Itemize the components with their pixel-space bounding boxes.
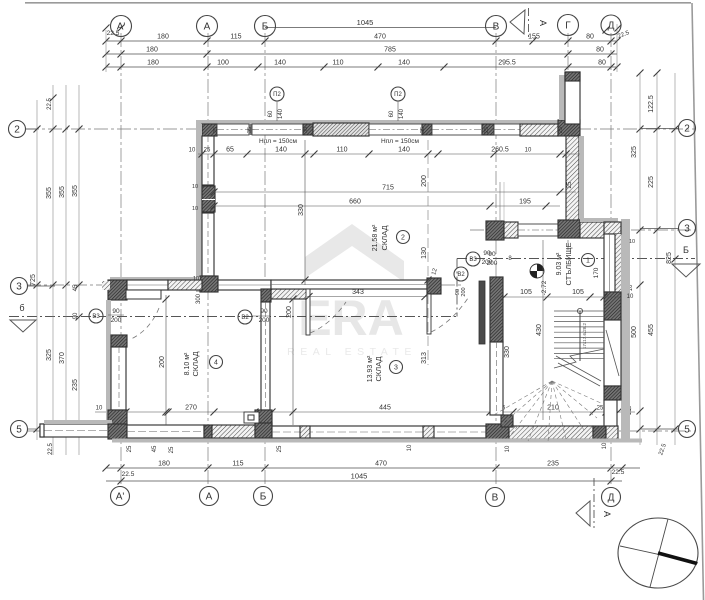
svg-text:А: А bbox=[204, 22, 211, 33]
bottom wall A junction bbox=[204, 425, 212, 438]
left wall A bottom block bbox=[200, 276, 218, 292]
top wall masonry infill segment bbox=[313, 123, 369, 136]
svg-text:110: 110 bbox=[332, 60, 343, 67]
svg-text:-2.72: -2.72 bbox=[541, 280, 548, 295]
svg-text:2: 2 bbox=[684, 124, 690, 135]
svg-text:295.5: 295.5 bbox=[498, 60, 516, 67]
left wall A mid piers bbox=[202, 186, 215, 212]
svg-text:180: 180 bbox=[147, 60, 159, 67]
svg-text:60: 60 bbox=[268, 110, 274, 117]
svg-text:430: 430 bbox=[536, 324, 543, 336]
stair treads bbox=[554, 310, 604, 312]
svg-text:60: 60 bbox=[389, 110, 395, 117]
svg-text:3: 3 bbox=[16, 282, 22, 293]
door B3-left leaf bbox=[126, 290, 161, 299]
svg-text:25: 25 bbox=[127, 445, 133, 452]
svg-text:715: 715 bbox=[382, 185, 394, 192]
svg-text:Г: Г bbox=[565, 21, 571, 32]
bottom wall segment 2 bbox=[272, 426, 486, 438]
bottom wall hatched segment bbox=[212, 425, 255, 438]
top extension line left bbox=[105, 30, 107, 72]
left wall A window upper bbox=[202, 136, 214, 185]
top wall corner block at A bbox=[202, 124, 217, 136]
svg-text:17x17.6/28.2: 17x17.6/28.2 bbox=[582, 322, 587, 349]
svg-text:80: 80 bbox=[598, 60, 606, 67]
svg-text:45: 45 bbox=[152, 445, 158, 452]
svg-text:В3: В3 bbox=[469, 257, 477, 263]
staircase right wall lower bbox=[604, 400, 617, 426]
svg-text:90: 90 bbox=[73, 312, 79, 319]
interior partition bottom block bbox=[255, 410, 272, 427]
svg-text:270: 270 bbox=[185, 405, 197, 412]
top dimension row 2 line bbox=[106, 53, 617, 55]
svg-text:5: 5 bbox=[684, 425, 690, 436]
svg-text:10: 10 bbox=[629, 239, 635, 245]
svg-text:200: 200 bbox=[111, 317, 122, 324]
svg-text:330: 330 bbox=[298, 204, 305, 216]
dim 343 line bbox=[307, 296, 427, 298]
axis circle A bottom bbox=[200, 487, 219, 506]
svg-text:35: 35 bbox=[303, 127, 309, 133]
svg-text:10: 10 bbox=[602, 442, 608, 449]
wall dimension row y412 bbox=[95, 411, 635, 413]
G wall lower part (between axis2 and staircase) bbox=[566, 136, 579, 222]
svg-text:140: 140 bbox=[399, 108, 405, 119]
door marker B2 right bbox=[454, 267, 468, 281]
svg-text:Б: Б bbox=[683, 245, 689, 255]
bottom wall V junction block bbox=[486, 424, 509, 439]
svg-text:В3: В3 bbox=[92, 314, 100, 320]
svg-text:105: 105 bbox=[520, 289, 532, 296]
watermark ERA house roof bbox=[305, 224, 404, 282]
svg-text:В: В bbox=[492, 493, 499, 504]
A' wall insulation ticks top bbox=[102, 281, 110, 290]
top wall segment hatched bbox=[520, 124, 558, 136]
svg-text:А': А' bbox=[117, 22, 126, 33]
svg-text:180: 180 bbox=[146, 47, 158, 54]
extension line x500 bbox=[499, 182, 501, 221]
svg-text:235: 235 bbox=[547, 461, 559, 468]
right dim line x640 bbox=[639, 73, 641, 445]
G wall upper part bbox=[565, 72, 580, 124]
svg-text:330: 330 bbox=[504, 346, 511, 358]
top wall insulation strip bbox=[196, 120, 560, 124]
svg-text:10: 10 bbox=[192, 184, 198, 190]
door B3-right leaf bbox=[427, 294, 431, 334]
svg-text:Нпл = 150см: Нпл = 150см bbox=[381, 138, 420, 145]
svg-text:225: 225 bbox=[648, 176, 655, 188]
door B3-left swing dashes bbox=[131, 308, 159, 339]
svg-text:1: 1 bbox=[586, 257, 590, 264]
marker box with square bbox=[244, 412, 259, 423]
door B2-mid swing dashes bbox=[310, 302, 346, 333]
svg-text:25: 25 bbox=[597, 406, 604, 412]
svg-text:130: 130 bbox=[421, 247, 428, 259]
svg-text:200: 200 bbox=[286, 306, 293, 318]
compass circle bbox=[618, 518, 698, 588]
svg-text:А': А' bbox=[116, 492, 125, 503]
svg-text:2: 2 bbox=[401, 234, 405, 241]
staircase right wall pier 2 bbox=[604, 386, 621, 400]
svg-text:200: 200 bbox=[461, 287, 467, 296]
svg-text:455: 455 bbox=[648, 324, 655, 336]
svg-text:б: б bbox=[19, 303, 24, 313]
room4 vertical dim x166 bbox=[165, 295, 167, 425]
svg-text:25: 25 bbox=[213, 127, 219, 133]
top wall pier at V axis bbox=[482, 124, 494, 135]
vertical dim line x428 bbox=[427, 140, 429, 365]
room3 vertical dim x293 bbox=[292, 299, 294, 425]
axis circle B top bbox=[255, 16, 276, 37]
top dimension row 3 line bbox=[106, 66, 617, 68]
svg-text:90: 90 bbox=[483, 250, 491, 257]
svg-text:470: 470 bbox=[374, 34, 386, 41]
svg-text:122.5: 122.5 bbox=[648, 95, 655, 113]
svg-text:80: 80 bbox=[586, 34, 594, 41]
section marker A top (triangle + letter) bbox=[510, 10, 525, 34]
svg-text:1045: 1045 bbox=[357, 18, 374, 27]
svg-text:200: 200 bbox=[159, 356, 166, 368]
svg-text:260.5: 260.5 bbox=[491, 147, 509, 154]
top wall window 1 bbox=[217, 124, 249, 135]
axis circle 5 left bbox=[11, 421, 28, 438]
svg-text:210: 210 bbox=[547, 405, 559, 412]
svg-text:8: 8 bbox=[508, 256, 512, 262]
axis D(Д) vertical dash-dot line bbox=[610, 33, 612, 487]
svg-text:200: 200 bbox=[421, 175, 428, 187]
svg-text:140: 140 bbox=[278, 108, 284, 119]
top wall window 2 bbox=[252, 124, 303, 135]
axis3 wall at A junction to partition bbox=[218, 280, 271, 290]
stair dim 430 bbox=[542, 240, 544, 420]
left wall A insulation strip bbox=[196, 124, 202, 292]
svg-text:10: 10 bbox=[505, 445, 511, 452]
svg-text:110: 110 bbox=[336, 147, 347, 154]
svg-text:90: 90 bbox=[260, 308, 268, 315]
level marker -2.72 bbox=[530, 264, 544, 278]
vertical dim line x305 bbox=[304, 140, 306, 285]
svg-text:12: 12 bbox=[431, 267, 439, 276]
svg-text:170: 170 bbox=[593, 267, 600, 278]
svg-text:2: 2 bbox=[14, 125, 20, 136]
svg-text:325: 325 bbox=[46, 349, 53, 361]
svg-text:355: 355 bbox=[59, 186, 66, 198]
axis G(Г) vertical dash-dot line bbox=[567, 33, 569, 250]
svg-text:355: 355 bbox=[72, 185, 79, 197]
bottom wall stub insulation strip bbox=[44, 420, 112, 424]
A' wall insulation strip bbox=[106, 300, 111, 421]
svg-text:35: 35 bbox=[420, 127, 426, 133]
svg-text:10: 10 bbox=[189, 148, 196, 154]
svg-text:195: 195 bbox=[519, 199, 531, 206]
svg-text:25: 25 bbox=[169, 446, 175, 453]
svg-text:343: 343 bbox=[352, 289, 364, 296]
door B2-stair leaf bar bbox=[479, 281, 485, 344]
svg-text:10: 10 bbox=[627, 294, 634, 300]
svg-text:10: 10 bbox=[192, 206, 198, 212]
axis circle G top bbox=[558, 15, 579, 36]
stair dim line y297 bbox=[504, 296, 620, 298]
bottom dimension row A line bbox=[106, 467, 640, 469]
axis circle 3 left bbox=[11, 278, 28, 295]
svg-text:355: 355 bbox=[46, 187, 53, 199]
bottom wall segment 1 bbox=[127, 425, 204, 438]
svg-text:90: 90 bbox=[112, 308, 120, 315]
svg-text:3: 3 bbox=[394, 364, 398, 371]
svg-text:В: В bbox=[493, 22, 500, 33]
svg-text:10: 10 bbox=[525, 148, 532, 154]
staircase left wall lower bbox=[490, 342, 503, 415]
axis3 lower jog band bbox=[271, 289, 307, 299]
svg-text:785: 785 bbox=[384, 47, 396, 54]
axis3 wall insulation strip bbox=[110, 277, 200, 280]
svg-text:10: 10 bbox=[193, 276, 199, 282]
A' wall bottom block bbox=[108, 410, 127, 427]
staircase left wall hatch block bbox=[490, 277, 503, 342]
svg-text:П2: П2 bbox=[273, 92, 281, 98]
door B3-right swing dashes bbox=[431, 298, 468, 332]
section line b-b right segment bbox=[457, 258, 695, 260]
svg-text:21.58 м²: 21.58 м² bbox=[372, 224, 379, 251]
svg-text:СКЛАД: СКЛАД bbox=[374, 356, 383, 381]
svg-text:140: 140 bbox=[274, 60, 286, 67]
section line b-b vertical jog bbox=[456, 259, 458, 317]
svg-text:140: 140 bbox=[275, 147, 287, 154]
svg-text:П2: П2 bbox=[394, 92, 402, 98]
svg-text:370: 370 bbox=[59, 352, 66, 364]
window marker P2 no.1 bbox=[270, 87, 284, 101]
door marker B3 left bbox=[89, 309, 103, 323]
svg-text:25: 25 bbox=[567, 181, 573, 188]
svg-text:СКЛАД: СКЛАД bbox=[380, 225, 389, 250]
svg-text:3: 3 bbox=[684, 224, 690, 235]
staircase right wall mid bbox=[604, 320, 621, 386]
axis3 wall end block bbox=[427, 278, 441, 294]
left dim line x79 bbox=[78, 85, 80, 455]
staircase right wall insulation strip bbox=[621, 219, 630, 441]
axis A vertical dash-dot line bbox=[207, 33, 209, 487]
section A-A bottom cut line bbox=[593, 478, 595, 528]
top row 1045 line bbox=[265, 27, 496, 29]
axis 3 left horizontal dash-dot line bbox=[27, 284, 462, 286]
svg-text:Д: Д bbox=[608, 21, 615, 32]
right dim line x657 bbox=[656, 73, 658, 445]
page top scan edge line bbox=[25, 2, 691, 4]
interior partition wall bbox=[261, 302, 270, 410]
svg-text:10: 10 bbox=[407, 444, 413, 451]
svg-text:140: 140 bbox=[398, 147, 410, 154]
svg-text:22.5: 22.5 bbox=[612, 469, 625, 476]
svg-text:22.5: 22.5 bbox=[658, 443, 668, 457]
axis B(Б) vertical dash-dot line bbox=[264, 33, 266, 487]
svg-text:22.5: 22.5 bbox=[122, 471, 135, 478]
svg-text:А: А bbox=[206, 492, 213, 503]
svg-text:100: 100 bbox=[217, 60, 229, 67]
stair direction arrow bbox=[556, 356, 601, 381]
svg-text:10: 10 bbox=[96, 406, 103, 412]
svg-text:В2: В2 bbox=[241, 315, 249, 321]
svg-text:235: 235 bbox=[72, 379, 79, 391]
top extension line right bbox=[616, 24, 618, 72]
svg-text:13.93 м²: 13.93 м² bbox=[367, 355, 374, 382]
staircase top wall insulation bbox=[580, 218, 618, 222]
staircase top wall junction G bbox=[558, 220, 580, 238]
svg-text:Б: Б bbox=[260, 492, 267, 503]
bottom wall block right bbox=[593, 426, 606, 439]
left dim line x66 bbox=[65, 85, 67, 455]
svg-text:45: 45 bbox=[73, 284, 79, 291]
room2 dim line y206 bbox=[214, 205, 560, 207]
svg-text:9.03 м²: 9.03 м² bbox=[556, 252, 563, 275]
top dimension row 1 line bbox=[106, 40, 617, 42]
svg-text:115: 115 bbox=[232, 461, 243, 468]
staircase top wall right part bbox=[580, 222, 618, 238]
svg-text:140: 140 bbox=[398, 60, 410, 67]
axis circle 2 left bbox=[9, 121, 26, 138]
door marker B2 mid bbox=[238, 310, 252, 324]
bottom wall insulation strip below bbox=[112, 439, 642, 443]
bottom wall partition junction block bbox=[255, 423, 272, 438]
axis circle A' top bbox=[111, 16, 132, 37]
svg-text:300: 300 bbox=[196, 293, 202, 304]
axis circle 2 right bbox=[679, 120, 696, 137]
svg-text:8.10 м²: 8.10 м² bbox=[184, 352, 191, 375]
staircase right wall window bbox=[615, 234, 621, 292]
svg-text:ERA: ERA bbox=[298, 290, 404, 346]
axis circle V bottom bbox=[486, 488, 505, 507]
bottom wall A' junction block bbox=[108, 424, 127, 439]
door B2-mid leaf bbox=[306, 289, 310, 335]
top wall pier 2 bbox=[422, 124, 432, 135]
svg-text:470: 470 bbox=[375, 461, 387, 468]
top wall window 5 bbox=[494, 124, 520, 135]
svg-text:200: 200 bbox=[482, 259, 493, 266]
axis circle V top bbox=[486, 16, 507, 37]
svg-text:80: 80 bbox=[596, 47, 604, 54]
axis3 wall segment 2 bbox=[168, 280, 202, 290]
top wall junction block at G bbox=[558, 120, 580, 136]
door marker B3 right bbox=[466, 252, 480, 266]
top wall mullion bbox=[249, 124, 252, 135]
svg-text:СКЛАД: СКЛАД bbox=[191, 351, 200, 376]
staircase top wall corner block bbox=[486, 221, 504, 240]
bottom wall right end bbox=[606, 426, 618, 439]
window marker P2 no.2 bbox=[391, 87, 405, 101]
axis 3 right horizontal dash-dot line bbox=[470, 229, 695, 231]
page right scan edge line bbox=[692, 3, 704, 600]
staircase left wall bottom block bbox=[501, 415, 513, 427]
top wall window 3 bbox=[369, 124, 422, 135]
axis 5 horizontal dash-dot line bbox=[27, 430, 695, 432]
bottom wall pier 1 bbox=[300, 426, 310, 438]
svg-text:115: 115 bbox=[230, 34, 241, 41]
left dim line x53 bbox=[52, 85, 54, 455]
axis circle 3 right bbox=[679, 220, 696, 237]
svg-text:200: 200 bbox=[259, 317, 270, 324]
svg-text:25: 25 bbox=[204, 148, 211, 154]
svg-text:22.5: 22.5 bbox=[47, 98, 53, 110]
axis circle D top bbox=[601, 15, 621, 35]
svg-text:180: 180 bbox=[157, 34, 169, 41]
interior partition top block bbox=[261, 289, 271, 302]
svg-text:А: А bbox=[602, 511, 612, 517]
room2 dim line y154 bbox=[198, 153, 580, 155]
svg-text:105: 105 bbox=[572, 289, 584, 296]
svg-text:35: 35 bbox=[247, 127, 253, 133]
svg-text:313: 313 bbox=[421, 352, 428, 364]
axis circle A' bottom bbox=[111, 487, 130, 506]
svg-text:825: 825 bbox=[666, 252, 673, 264]
svg-text:В2: В2 bbox=[457, 272, 465, 278]
svg-text:4: 4 bbox=[214, 359, 218, 366]
A' wall lower window bbox=[111, 347, 126, 410]
svg-text:180: 180 bbox=[158, 461, 170, 468]
room2 dim line y192 bbox=[214, 191, 576, 193]
svg-text:25: 25 bbox=[277, 445, 283, 452]
svg-text:5: 5 bbox=[16, 425, 22, 436]
axis A' vertical dash-dot line bbox=[120, 33, 122, 487]
svg-text:Д: Д bbox=[608, 493, 615, 504]
section line b-b left segment bbox=[9, 316, 457, 318]
svg-text:Б: Б bbox=[262, 22, 269, 33]
section A-A top cut line bbox=[528, 8, 530, 40]
axis circle D bottom bbox=[602, 488, 621, 507]
staircase top wall hatch piece bbox=[504, 222, 518, 238]
stair break line bbox=[554, 349, 604, 368]
svg-text:25: 25 bbox=[558, 127, 564, 133]
svg-text:445: 445 bbox=[379, 405, 391, 412]
svg-text:25: 25 bbox=[484, 127, 490, 133]
axis3 partition wall right bbox=[271, 280, 427, 289]
axis circle 5 right bbox=[679, 421, 696, 438]
G wall upper insulation strip bbox=[559, 75, 565, 120]
svg-text:1045: 1045 bbox=[351, 472, 368, 481]
axis circle B bottom bbox=[254, 487, 273, 506]
svg-text:65: 65 bbox=[226, 147, 234, 154]
bottom wall pier 2 bbox=[423, 426, 434, 438]
stair railing bbox=[579, 311, 581, 361]
axis3 wall corner block A' bbox=[108, 280, 127, 300]
stair winder fan lines bbox=[492, 381, 552, 416]
left dim line x37 bbox=[36, 100, 38, 440]
bottom wall left stub bbox=[40, 424, 112, 437]
staircase right wall top bbox=[604, 237, 621, 239]
svg-text:155: 155 bbox=[528, 34, 540, 41]
top wall window 4 bbox=[432, 124, 482, 135]
section marker A bottom (triangle + letter) bbox=[576, 501, 590, 526]
staircase top wall window bbox=[518, 224, 558, 236]
A' wall below door block bbox=[111, 335, 127, 347]
svg-text:660: 660 bbox=[349, 199, 361, 206]
left wall A window lower bbox=[202, 213, 214, 276]
axis V(В) vertical dash-dot line bbox=[495, 33, 497, 487]
axis 2 horizontal dash-dot line bbox=[25, 128, 695, 130]
staircase right wall pier bbox=[604, 292, 621, 320]
svg-text:325: 325 bbox=[631, 146, 638, 158]
svg-text:СТЪЛБИЩЕ: СТЪЛБИЩЕ bbox=[564, 243, 573, 286]
bottom wall under staircase bbox=[509, 426, 593, 439]
axis circle A top bbox=[197, 16, 218, 37]
right dim line x675 bbox=[674, 73, 676, 445]
svg-text:Нпл = 150см: Нпл = 150см bbox=[259, 138, 298, 145]
svg-text:725: 725 bbox=[30, 274, 37, 286]
axis3 wall left segment bbox=[127, 280, 168, 290]
top wall pier bbox=[303, 124, 313, 135]
svg-text:500: 500 bbox=[631, 326, 638, 338]
bottom dimension row B line bbox=[106, 480, 622, 482]
svg-text:А: А bbox=[538, 20, 548, 26]
svg-text:REAL ESTATE: REAL ESTATE bbox=[287, 346, 417, 358]
